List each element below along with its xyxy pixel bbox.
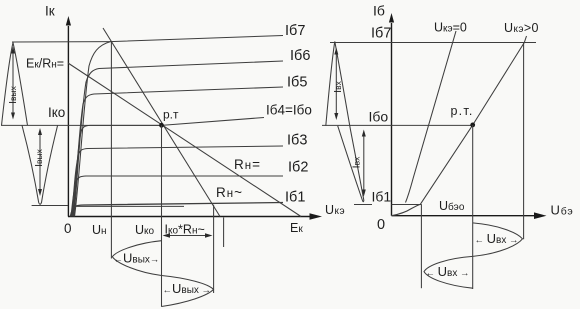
axis Uke (horizontal)	[68, 216, 312, 218]
svg-text:Iко*Rн~: Iко*Rн~	[165, 223, 205, 237]
svg-text:Iвх: Iвх	[332, 80, 344, 92]
wire vertical at Uko+Iko*Rn	[213, 205, 215, 293]
wire vertical at Un	[110, 42, 112, 259]
svg-text:Iвх: Iвх	[351, 156, 363, 168]
curve Ib4	[72, 118, 264, 217]
svg-text:Rн=: Rн=	[234, 157, 261, 172]
svg-text:Iб1: Iб1	[285, 190, 305, 206]
wire Ib1 dark overlap segment	[74, 205, 184, 207]
svg-text:Iб: Iб	[373, 3, 385, 19]
svg-text:Iк: Iк	[45, 4, 55, 19]
svg-text:0: 0	[64, 221, 72, 236]
curve Uke>0	[420, 36, 526, 204]
svg-text:Ек/Rн=: Ек/Rн=	[26, 57, 64, 71]
wire Ib1 level line right of axis	[392, 204, 422, 206]
svg-text:Iб6: Iб6	[290, 48, 310, 64]
svg-text:Uбэо: Uбэо	[439, 199, 465, 213]
node operating point dot (left)	[159, 123, 164, 128]
wire short vertical below axis	[223, 218, 225, 248]
svg-text:Uко: Uко	[135, 223, 155, 237]
axis Ib (vertical)	[391, 23, 393, 216]
axis Ube arrowhead	[534, 212, 547, 219]
curve Ib6	[74, 61, 283, 217]
axis Ib arrowhead	[389, 13, 394, 23]
node Iko level line	[1, 124, 162, 126]
axis Ik arrowhead	[66, 16, 71, 26]
node Ibo level line	[322, 124, 473, 126]
svg-text:Uкэ>0: Uкэ>0	[504, 21, 539, 35]
axis Ik (vertical)	[67, 26, 69, 217]
wire short line at bottom of output sine	[32, 205, 68, 207]
waveform Uvh right lobe	[473, 223, 523, 257]
waveform Uvyh left lobe	[112, 241, 161, 276]
svg-text:Iб3: Iб3	[287, 133, 307, 149]
waveform input current sine upper lobe	[326, 42, 364, 201]
curve Ib7	[75, 36, 284, 217]
svg-text:0: 0	[377, 217, 385, 233]
node Ek/Rn level annotation line (top)	[12, 41, 111, 43]
svg-text:Iвых: Iвых	[7, 85, 19, 104]
waveform output current sine upper lobe	[2, 43, 28, 126]
waveform output current sine lower lobe	[22, 125, 58, 204]
node Ib7 level line (top)	[330, 42, 536, 44]
wire vertical left swing limit	[420, 204, 422, 288]
wire vertical through right operating point	[472, 125, 474, 289]
svg-text:Iвых: Iвых	[33, 148, 45, 167]
arrow Ivyh upper	[12, 51, 14, 114]
curve Ib1	[70, 203, 283, 217]
svg-text:Uн: Uн	[92, 223, 107, 237]
svg-text:Iб4=Iбо: Iб4=Iбо	[266, 103, 312, 118]
wire vertical right swing limit	[523, 43, 525, 240]
dimension arrow Iko*Rn~	[166, 235, 209, 237]
svg-text:р.т.: р.т.	[451, 104, 474, 118]
svg-text:Uкэ=0: Uкэ=0	[434, 21, 467, 35]
waveform Uvyh right lobe	[162, 276, 214, 307]
svg-text:Iб7: Iб7	[285, 23, 305, 39]
svg-text:Iб2: Iб2	[288, 160, 308, 176]
svg-text:р.т: р.т	[163, 108, 179, 122]
axis Uke arrowhead	[310, 213, 323, 220]
wire vertical at Uko through operating point	[161, 125, 163, 306]
arrow Ivh upper	[335, 52, 337, 115]
svg-text:Iбо: Iбо	[369, 109, 389, 125]
waveform input current sine lower lobe left side	[338, 126, 364, 202]
curve Ib5	[73, 87, 283, 217]
node Ib1 level short line	[354, 204, 372, 206]
curve Ib2	[71, 176, 283, 217]
node operating point dot (right)	[470, 123, 475, 128]
load line Rn~ (AC)	[103, 28, 220, 217]
svg-text:Rн~: Rн~	[216, 185, 243, 200]
load line Rn= (DC)	[68, 63, 301, 217]
arrow Ivyh lower	[39, 133, 41, 192]
svg-text:Ек: Ек	[290, 221, 303, 235]
waveform Uvh left lobe	[424, 256, 473, 288]
svg-text:Iко: Iко	[48, 105, 65, 120]
svg-text:Iб5: Iб5	[287, 75, 307, 91]
curve input characteristic start bend	[392, 204, 421, 216]
svg-text:Uбэ: Uбэ	[551, 203, 574, 218]
svg-text:Iб7: Iб7	[371, 26, 391, 42]
arrow Ivh lower	[363, 134, 365, 192]
axis Ube (horizontal)	[392, 215, 538, 217]
curve Ib3	[72, 146, 283, 217]
svg-text:Iб1: Iб1	[372, 189, 392, 205]
svg-text:Uкэ: Uкэ	[325, 203, 345, 217]
curve Uke=0	[406, 31, 457, 203]
